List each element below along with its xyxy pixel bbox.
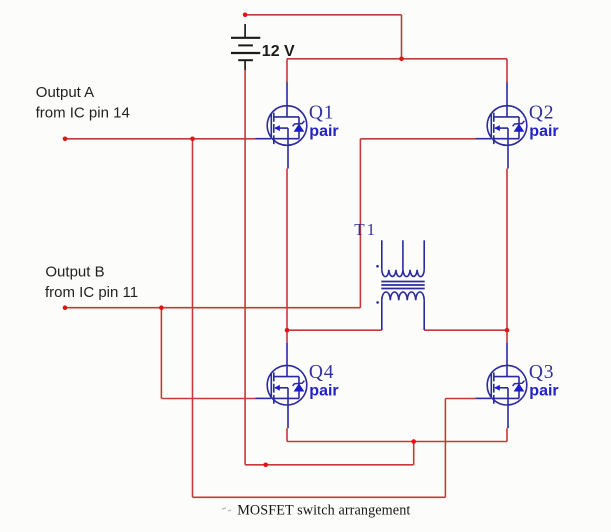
svg-text:pair: pair	[309, 123, 338, 140]
wire Q2 drain feed	[506, 59, 508, 83]
junction battery positive	[243, 13, 248, 18]
transistor Q2	[476, 83, 527, 169]
transistor Q3	[476, 342, 527, 428]
wire node B to Q3 drain	[506, 330, 508, 342]
wire bottom run to Q3 gate	[193, 496, 446, 498]
transistor Q4	[256, 342, 307, 428]
svg-text:Q4: Q4	[309, 362, 334, 383]
wire node A to transformer left	[287, 329, 382, 331]
junction source rail	[411, 439, 416, 444]
junction battery negative run	[263, 463, 268, 468]
wire Output B drop	[160, 308, 162, 399]
svg-text:pair: pair	[529, 123, 558, 140]
wire +12V top rail	[245, 14, 401, 16]
junction node A	[285, 328, 290, 333]
svg-text:12 V: 12 V	[262, 43, 295, 60]
wire battery negative vertical	[244, 70, 246, 465]
wire Q1 drain feed	[286, 59, 288, 83]
node Output A terminal	[63, 137, 68, 142]
svg-text:pair: pair	[309, 382, 338, 399]
svg-text:MOSFET switch arrangement: MOSFET switch arrangement	[237, 503, 410, 519]
transformer T1	[376, 240, 425, 330]
transistor Q1	[256, 83, 307, 169]
junction top rail	[399, 57, 404, 62]
svg-text:Q2: Q2	[529, 102, 554, 123]
wire source rail Q4-Q3	[287, 441, 507, 443]
battery B1	[231, 24, 260, 70]
svg-text:T1: T1	[354, 220, 377, 239]
svg-text:Q3: Q3	[529, 362, 554, 383]
svg-text:from IC pin 11: from IC pin 11	[45, 284, 138, 301]
wire Q2 gate feed	[360, 138, 475, 140]
wire battery negative horizontal	[245, 464, 414, 466]
wire Q4 gate feed	[161, 398, 255, 400]
junction Output A branch	[190, 137, 195, 142]
svg-text:Output B: Output B	[45, 263, 104, 280]
wire +12V distribution rail	[287, 58, 507, 60]
wire Output B horizontal	[65, 307, 360, 309]
wire top rail drop	[401, 15, 403, 59]
smudge mark	[222, 508, 231, 511]
wire Output B riser	[359, 139, 361, 308]
wire Q3 gate riser	[444, 399, 446, 498]
svg-text:from IC pin 14: from IC pin 14	[36, 105, 130, 122]
svg-text:Q1: Q1	[309, 102, 334, 123]
wire Q4 source drop	[286, 428, 288, 441]
wire node A to Q4 drain	[286, 330, 288, 342]
svg-text:pair: pair	[529, 382, 558, 399]
wire Q2 source down to node B	[506, 169, 508, 331]
wire Q1 source down to node A	[286, 169, 288, 331]
node Output B terminal	[63, 305, 68, 310]
wire transformer right to node B	[424, 329, 507, 331]
wire Q3 source drop	[506, 428, 508, 441]
svg-text:Output A: Output A	[36, 84, 94, 101]
wire Output A horizontal	[65, 138, 256, 140]
junction Output B branch	[159, 305, 164, 310]
junction node B	[505, 328, 510, 333]
wire ground riser to source rail	[413, 442, 415, 465]
wire Q3 gate feed	[445, 398, 475, 400]
wire Output A drop	[192, 139, 194, 498]
